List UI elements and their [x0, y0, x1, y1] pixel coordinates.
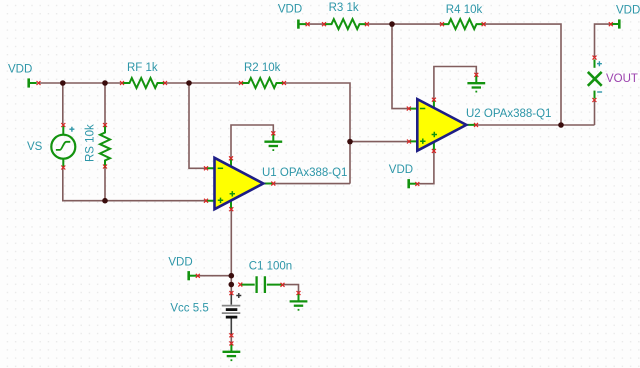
pin x G4 [229, 341, 233, 345]
pin x R3 left [322, 22, 326, 26]
resistor R3 [324, 19, 367, 29]
wire U2 output to output node [476, 124, 595, 126]
junction bottom rail [102, 198, 108, 204]
pin x VDD2 [306, 22, 310, 26]
ground G2 at U2 top [467, 75, 485, 92]
junction node A [186, 80, 192, 86]
pin x meter plus [593, 56, 597, 60]
op-amp U1 plus sign [218, 198, 223, 203]
pin x VDD1 [37, 81, 41, 85]
pin x meter minus [592, 98, 596, 102]
power VDD terminal 2 [298, 20, 306, 29]
pin x U2 plus [407, 140, 411, 144]
op-amp U2 triangle [417, 99, 466, 151]
battery Vcc plate thick 1 [226, 308, 238, 311]
wire VDD terminal to R3 [308, 23, 324, 25]
pin x U2 out [474, 123, 478, 127]
pin x R2 left [239, 81, 243, 85]
wire node A down to U1 minus input [189, 83, 206, 168]
junction VS top [60, 80, 66, 86]
pin x VS top [61, 123, 65, 127]
pin x R4 right [482, 22, 486, 26]
meter VOUT minus sign [597, 91, 602, 93]
pin x RF left [120, 81, 124, 85]
pin x VDD3 [196, 274, 200, 278]
source VS plus sign [69, 127, 74, 132]
pin x VDD4 [415, 182, 419, 186]
svg-text:VDD: VDD [278, 4, 302, 16]
wire RF to R2 through node A [165, 82, 241, 84]
pin x RS top [103, 123, 107, 127]
battery Vcc plate thick 2 [226, 316, 238, 319]
power VDD terminal 5 top right mirrored [611, 19, 619, 28]
svg-text:U1 OPAx388-Q1: U1 OPAx388-Q1 [262, 167, 347, 179]
wire meter minus down to output node [594, 100, 596, 125]
svg-text:VDD: VDD [8, 64, 32, 76]
battery Vcc top lead [230, 294, 232, 305]
pin x C1 left [238, 283, 242, 287]
source VS top stub [62, 126, 64, 135]
power VDD terminal 1 [29, 78, 37, 87]
pin x U2 top [432, 98, 436, 102]
svg-text:VDD: VDD [389, 164, 413, 176]
power VDD terminal 3 [189, 271, 197, 280]
junction U1 supply lower [229, 282, 235, 288]
svg-text:VS: VS [27, 141, 43, 153]
svg-text:R4 10k: R4 10k [446, 4, 483, 16]
svg-text:VDD: VDD [616, 4, 640, 16]
meter VOUT cross [588, 72, 602, 86]
wire VDD top right to meter plus [595, 24, 611, 58]
wire top rail down to VS [62, 83, 64, 125]
junction node B [389, 21, 395, 27]
pin x G1 [271, 131, 275, 135]
wire U1 top pin to ground G1 [231, 125, 273, 158]
svg-text:RS 10k: RS 10k [85, 124, 97, 162]
pin x U1 plus [204, 199, 208, 203]
pin x R2 right [282, 81, 286, 85]
svg-text:VOUT: VOUT [606, 73, 638, 85]
meter VOUT plus sign [597, 61, 602, 66]
pin x G2 [474, 73, 478, 77]
pin x U1 out [271, 182, 275, 186]
wire U1 bottom pin down to battery [230, 209, 232, 293]
meter VOUT minus stub [594, 91, 596, 99]
junction U1 supply upper [229, 273, 235, 279]
op-amp U1 supply plus sign [230, 191, 235, 196]
wire U2 top pin to ground G2 [434, 67, 476, 100]
svg-text:U2 OPAx388-Q1: U2 OPAx388-Q1 [466, 108, 551, 120]
svg-text:R2 10k: R2 10k [244, 62, 281, 74]
wire C1 right to ground G3 [283, 285, 299, 293]
ground G4 at battery [223, 344, 241, 361]
wire R2 right then down to U1 output level [284, 83, 350, 184]
junction output node [558, 122, 564, 128]
source VS waveform [56, 142, 70, 150]
battery Vcc plate thin 2 [222, 312, 241, 314]
battery Vcc plus sign [236, 293, 241, 298]
svg-text:C1 100n: C1 100n [249, 261, 292, 273]
resistor RF [122, 78, 165, 88]
battery Vcc plate thin 1 [222, 305, 241, 307]
wire node B down to U2 minus input [392, 24, 409, 109]
ground G1 at U1 top [264, 134, 282, 151]
svg-text:R3 1k: R3 1k [329, 2, 359, 14]
op-amp U1 triangle [215, 158, 264, 209]
pin x U2 bottom [432, 149, 436, 153]
wire R3 to R4 through node B [367, 23, 442, 25]
pin x C1 right [281, 283, 285, 287]
junction feedback to U2 plus [347, 139, 353, 145]
wire RS bottom to bottom rail [104, 167, 106, 201]
wire U2 bottom pin to VDD terminal [417, 151, 434, 184]
op-amp U1 input stubs [206, 159, 273, 209]
pin x U1 top [229, 156, 233, 160]
resistor R2 [241, 78, 284, 88]
ground G3 at C1 [290, 294, 308, 311]
resistor R4 [441, 19, 484, 29]
pin x battery top [229, 291, 233, 295]
wire top rail VDD to RF [38, 82, 122, 84]
op-amp U2 plus sign [420, 139, 425, 144]
resistor RS [100, 125, 110, 168]
op-amp U1 minus sign [218, 167, 223, 169]
pin x VS bottom [61, 166, 65, 170]
wire top rail down to RS [104, 83, 106, 125]
pin x U1 minus [204, 166, 208, 170]
battery Vcc bottom lead [230, 319, 232, 336]
pin x RS bottom [103, 165, 107, 169]
wire feedback node to U2 plus input [350, 141, 409, 143]
op-amp U2 input stubs [409, 100, 476, 151]
op-amp U2 minus sign [420, 108, 425, 110]
power VDD terminal 4 [409, 179, 417, 188]
pin x VDD5 [609, 22, 613, 26]
wire U1 output to feedback vertical [273, 183, 350, 185]
source VS circle [51, 135, 75, 159]
pin x battery bottom [229, 333, 233, 337]
pin x R3 right [365, 22, 369, 26]
pin x U1 bottom [229, 207, 233, 211]
wire battery bottom to ground G4 [230, 335, 232, 343]
source VS bottom stub [62, 160, 64, 168]
junction RS top [102, 80, 108, 86]
op-amp U2 supply plus sign [432, 132, 437, 137]
capacitor C1 [241, 276, 282, 293]
wire R4 right down to output node [484, 24, 561, 125]
wire VDD terminal to U1 supply node [198, 275, 232, 277]
pin x G3 [297, 291, 301, 295]
wire VS bottom to U1 plus input [63, 168, 206, 201]
pin x U2 minus [407, 107, 411, 111]
pin x RF right [163, 81, 167, 85]
svg-text:RF 1k: RF 1k [127, 62, 158, 74]
svg-text:VDD: VDD [168, 256, 192, 268]
pin x R4 left [440, 22, 444, 26]
svg-text:Vcc 5.5: Vcc 5.5 [170, 303, 208, 315]
meter VOUT plus stub [594, 60, 596, 68]
